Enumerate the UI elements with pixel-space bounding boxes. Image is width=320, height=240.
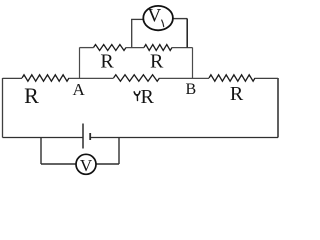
- svg-text:V: V: [80, 156, 93, 175]
- resistor 2R (main middle): [114, 75, 160, 81]
- wire: voltmeter V1 left vertical: [131, 19, 133, 48]
- resistor R (main right): [209, 75, 255, 81]
- svg-text:V: V: [148, 5, 162, 26]
- wire: voltmeter V bottom right horizontal: [96, 163, 119, 165]
- resistor R (main left): [22, 75, 69, 81]
- wire: outer loop right vertical: [277, 78, 279, 138]
- wire: sub-loop left vertical (node A up): [79, 48, 81, 79]
- battery short plate: [89, 133, 91, 140]
- svg-text:B: B: [185, 81, 196, 98]
- wire: main row A to middle resistor: [69, 77, 114, 79]
- svg-text:A: A: [72, 80, 85, 99]
- wire: sub row middle junction segment: [126, 47, 144, 49]
- voltmeter V1 circle: [143, 6, 173, 30]
- svg-text:R: R: [150, 51, 164, 73]
- label V1 subscript one (Arabic-Indic): [162, 20, 164, 27]
- wire: main row segment left: [3, 77, 23, 79]
- wire: bottom wire left of battery: [3, 137, 84, 139]
- wire: voltmeter V bottom left horizontal: [41, 163, 76, 165]
- wire: voltmeter V1 right vertical: [186, 19, 188, 48]
- resistor R (sub right): [144, 45, 172, 51]
- wire: main row right segment: [255, 77, 278, 79]
- battery long plate: [82, 124, 84, 149]
- wire: voltmeter V1 left horizontal: [131, 18, 143, 20]
- label 2R numeral (Arabic-Indic two): [134, 92, 140, 96]
- resistor R (sub left): [94, 45, 127, 51]
- wire: bottom wire right of battery: [91, 137, 279, 139]
- svg-text:R: R: [24, 83, 39, 108]
- wire: sub row left segment: [80, 47, 94, 49]
- wire: main row middle resistor to B: [160, 77, 210, 79]
- wire: sub row right segment: [172, 47, 193, 49]
- wire: outer loop left vertical: [2, 78, 4, 138]
- voltmeter V circle: [76, 154, 96, 174]
- wire: sub-loop right vertical (node B up): [192, 48, 194, 79]
- svg-text:R: R: [100, 51, 114, 73]
- svg-text:R: R: [141, 86, 155, 108]
- wire: voltmeter V right vertical: [118, 138, 120, 165]
- svg-text:R: R: [230, 83, 244, 105]
- wire: voltmeter V left vertical: [40, 138, 42, 165]
- wire: voltmeter V1 right horizontal: [173, 18, 187, 20]
